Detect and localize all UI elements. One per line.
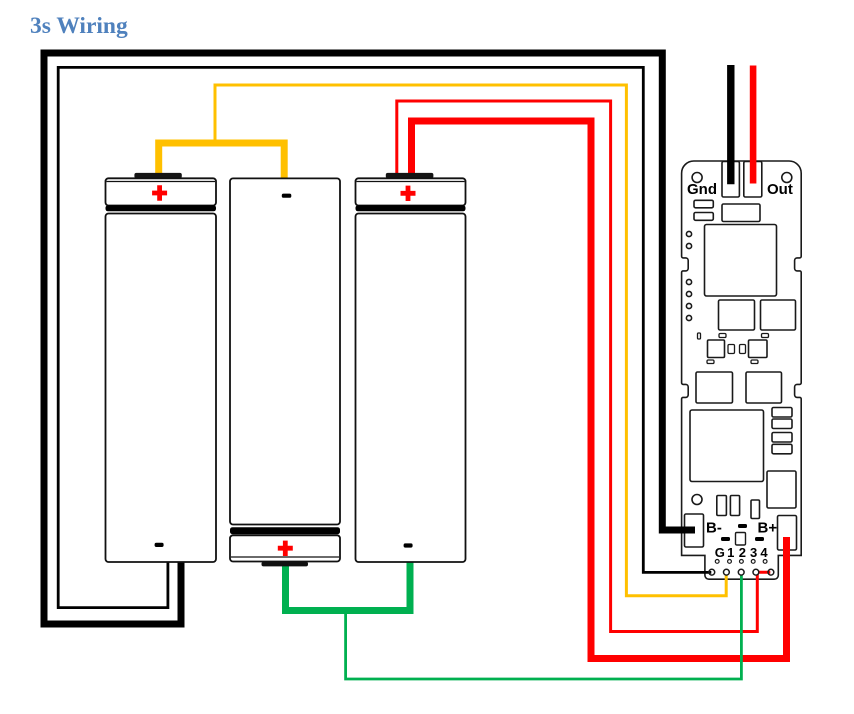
svg-text:2: 2: [739, 545, 746, 560]
svg-text:1: 1: [727, 545, 734, 560]
svg-text:3s Wiring: 3s Wiring: [30, 13, 128, 39]
svg-text:4: 4: [760, 545, 768, 560]
svg-text:3: 3: [750, 545, 757, 560]
svg-text:B+: B+: [758, 520, 778, 537]
svg-text:Out: Out: [767, 181, 793, 198]
svg-text:Gnd: Gnd: [687, 181, 717, 198]
svg-text:G: G: [715, 545, 725, 560]
svg-text:B-: B-: [706, 520, 722, 537]
